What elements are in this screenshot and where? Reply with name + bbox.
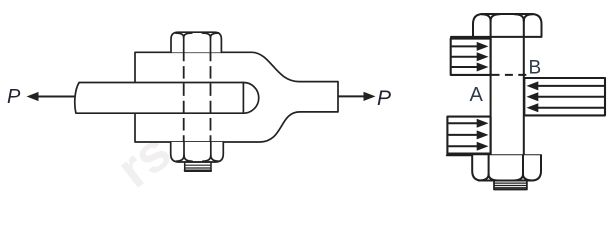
svg-text:A: A	[470, 84, 484, 106]
load arrows right	[527, 81, 604, 112]
shear plane B dashed line	[492, 74, 527, 76]
threaded stub (left figure)	[185, 162, 211, 171]
load arrows lower-left	[449, 119, 489, 151]
bolt head (left figure)	[171, 32, 221, 52]
load arrows upper-left	[452, 42, 489, 72]
bolt head (right figure)	[473, 14, 542, 36]
svg-text:P: P	[7, 86, 21, 108]
svg-text:B: B	[529, 58, 542, 79]
force arrow P (left)	[27, 92, 75, 101]
plate block upper-left	[451, 39, 491, 75]
watermark	[106, 122, 182, 199]
plate block lower-left	[447, 117, 490, 154]
nut (right figure)	[472, 155, 541, 180]
rod (flat bar)	[75, 83, 259, 114]
force arrow P (right of left figure)	[339, 92, 376, 101]
bolt shank hidden lines (dashed)	[184, 52, 211, 142]
threaded stub (right figure)	[494, 181, 527, 190]
rod end chord	[242, 83, 244, 114]
fork (clevis) body	[135, 52, 338, 142]
svg-text:P: P	[377, 87, 391, 110]
nut (left figure)	[171, 142, 224, 162]
nut seat line (right figure)	[447, 154, 541, 156]
bolt shank (right figure)	[491, 37, 524, 155]
head seat line	[451, 36, 542, 38]
plate block right	[524, 78, 605, 115]
